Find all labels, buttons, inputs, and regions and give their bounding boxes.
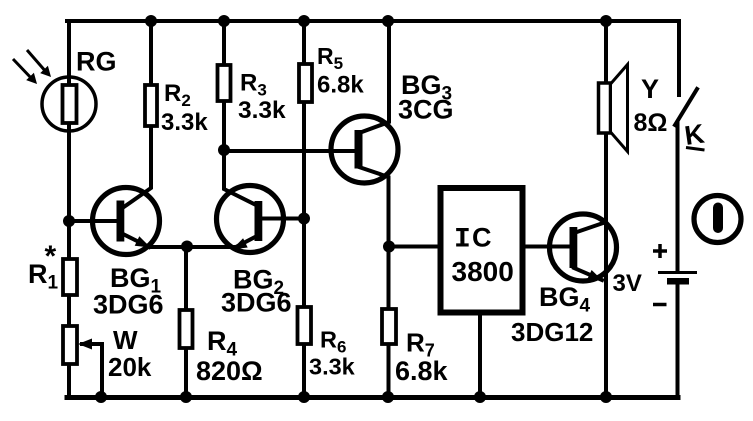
svg-text:R6: R6 xyxy=(320,327,346,357)
svg-text:W: W xyxy=(113,325,138,355)
svg-text:3V: 3V xyxy=(613,270,642,297)
svg-text:3DG6: 3DG6 xyxy=(221,288,292,318)
svg-text:Y: Y xyxy=(641,74,659,104)
svg-text:820Ω: 820Ω xyxy=(196,356,263,386)
svg-text:3.3k: 3.3k xyxy=(161,109,208,136)
svg-text:8Ω: 8Ω xyxy=(634,109,668,137)
svg-text:3800: 3800 xyxy=(452,256,514,287)
svg-text:6.8k: 6.8k xyxy=(317,72,364,99)
svg-text:3.3k: 3.3k xyxy=(238,97,286,124)
svg-text:R5: R5 xyxy=(317,43,343,73)
svg-text:6.8k: 6.8k xyxy=(395,356,449,386)
svg-text:3CG: 3CG xyxy=(398,95,454,125)
svg-text:*: * xyxy=(45,240,57,273)
svg-text:RG: RG xyxy=(76,47,117,77)
svg-text:20k: 20k xyxy=(108,352,152,382)
svg-text:3.3k: 3.3k xyxy=(309,354,356,380)
svg-text:3DG12: 3DG12 xyxy=(511,317,593,347)
svg-text:K: K xyxy=(683,118,707,150)
svg-text:R3: R3 xyxy=(240,70,267,100)
svg-text:C: C xyxy=(472,223,492,253)
svg-text:R2: R2 xyxy=(164,80,191,110)
svg-text:I: I xyxy=(454,225,471,256)
svg-text:BG4: BG4 xyxy=(539,282,591,317)
svg-text:3DG6: 3DG6 xyxy=(93,290,164,320)
